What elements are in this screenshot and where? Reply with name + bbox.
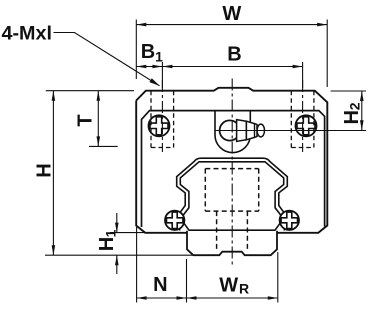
svg-text:1: 1 (155, 49, 163, 65)
svg-text:1: 1 (103, 229, 119, 237)
N extension left (136, 227, 138, 303)
W extension right (326, 20, 328, 88)
WR arrows (187, 296, 197, 300)
B arrows (162, 65, 172, 69)
W arrows (136, 23, 146, 27)
grease nipple housing (215, 111, 250, 153)
B extension left (161, 62, 163, 88)
N arrows (137, 296, 147, 300)
4-Mxl leader line (54, 33, 160, 86)
svg-text:T: T (75, 114, 97, 126)
svg-text:4-Mxl: 4-Mxl (2, 24, 53, 45)
grease nipple body (237, 120, 247, 142)
bottom-left end plate screw (165, 211, 184, 230)
tapped mounting holes 4-Mxl (hidden, dashed) (151, 91, 314, 148)
B1 arrows (136, 65, 146, 69)
H arrows (52, 91, 56, 101)
seal opening contour around rail (180, 162, 283, 230)
H1 dimension line upper (116, 213, 118, 233)
svg-text:B: B (141, 41, 155, 63)
carriage block outer silhouette (136, 88, 327, 233)
svg-text:H: H (341, 110, 363, 124)
top-left end plate screw (149, 115, 170, 136)
nipple axis / H2 extension bottom (216, 130, 367, 132)
arrowheads (52, 23, 364, 300)
svg-text:H: H (34, 163, 56, 177)
B / B1 dimension line (136, 66, 302, 68)
thread depth extension line (89, 145, 118, 147)
N and WR dimension line (137, 297, 278, 299)
dimension and extension lines (45, 20, 366, 303)
T arrows (97, 91, 101, 101)
rail hidden profile (dashed) (205, 169, 258, 251)
WR extension right (277, 252, 279, 303)
svg-text:B: B (227, 44, 241, 66)
svg-text:R: R (239, 281, 249, 297)
T dimension line (97, 91, 99, 147)
H2 arrows (360, 91, 364, 101)
H dimension line (52, 91, 54, 256)
svg-text:N: N (153, 274, 167, 296)
W extension left (135, 20, 137, 80)
H2 dimension line (361, 91, 363, 130)
H1 arrows (115, 223, 119, 233)
svg-text:H: H (96, 237, 118, 251)
svg-text:2: 2 (347, 102, 363, 110)
grease nipple tip (257, 124, 264, 137)
H1 dimension line lower (116, 255, 118, 274)
top-right end plate screw (296, 115, 317, 136)
top surface extension line (46, 90, 134, 92)
base plane extension line (45, 254, 193, 256)
end seal outer contour (177, 158, 288, 230)
W dimension line (136, 24, 327, 26)
grease nipple ball (220, 120, 240, 140)
bottom-right end plate screw (280, 211, 299, 230)
end plate inner outline (142, 111, 325, 227)
block bottom extension line (110, 232, 146, 234)
centerlines (dash-dot) (162, 79, 302, 268)
N/WR shared extension (186, 259, 188, 303)
leader arrowhead (149, 78, 160, 86)
svg-text:W: W (219, 275, 238, 297)
rail visible lower part with bottom notch (187, 231, 277, 255)
H2 extension top (331, 90, 366, 92)
B extension right (302, 62, 304, 88)
svg-text:W: W (222, 3, 241, 25)
